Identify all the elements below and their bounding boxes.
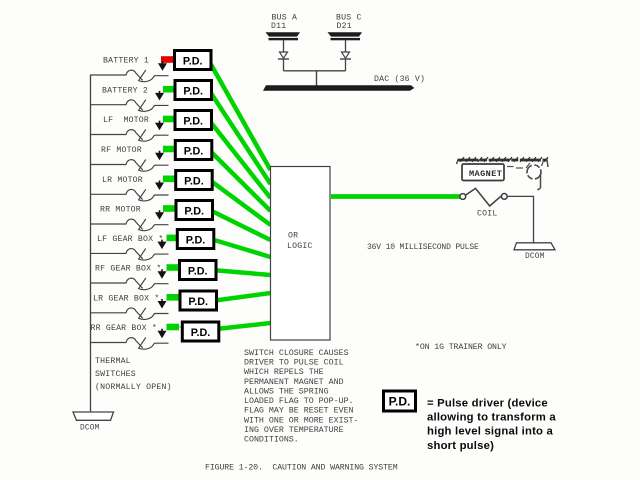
svg-text:LOADED FLAG TO POP-UP.: LOADED FLAG TO POP-UP. (244, 397, 354, 406)
svg-text:SWITCH CLOSURE CAUSES: SWITCH CLOSURE CAUSES (244, 349, 349, 358)
svg-text:BATTERY 1: BATTERY 1 (103, 57, 149, 66)
svg-text:RF GEAR BOX *: RF GEAR BOX * (95, 264, 161, 274)
svg-text:MAGNET: MAGNET (469, 169, 502, 179)
svg-text:LR MOTOR: LR MOTOR (102, 176, 143, 185)
svg-text:LR GEAR BOX *: LR GEAR BOX * (93, 293, 159, 303)
svg-text:ING OVER TEMPERATURE: ING OVER TEMPERATURE (244, 426, 344, 435)
svg-text:= Pulse driver (device: = Pulse driver (device (427, 397, 548, 409)
svg-text:D11: D11 (271, 22, 286, 31)
svg-text:D21: D21 (337, 22, 352, 31)
svg-text:ALLOWS THE SPRING: ALLOWS THE SPRING (244, 387, 329, 396)
svg-text:RF MOTOR: RF MOTOR (101, 146, 142, 155)
svg-text:allowing to transform a: allowing to transform a (427, 411, 556, 423)
svg-text:P.D.: P.D. (184, 145, 204, 157)
svg-text:P.D.: P.D. (389, 395, 411, 409)
svg-text:BUS C: BUS C (336, 14, 362, 23)
svg-text:P.D.: P.D. (183, 115, 203, 127)
svg-text:BUS A: BUS A (272, 14, 298, 23)
svg-text:THERMAL: THERMAL (95, 357, 131, 366)
svg-text:LF GEAR BOX *: LF GEAR BOX * (97, 234, 163, 244)
svg-text:FLAG MAY BE RESET EVEN: FLAG MAY BE RESET EVEN (244, 407, 354, 416)
svg-text:DAC (36 V): DAC (36 V) (374, 74, 425, 84)
svg-text:P.D.: P.D. (184, 205, 204, 217)
svg-text:WHICH REPELS THE: WHICH REPELS THE (244, 368, 324, 377)
svg-text:OR: OR (288, 231, 298, 240)
svg-text:DCOM: DCOM (525, 253, 545, 261)
svg-text:BATTERY 2: BATTERY 2 (102, 86, 148, 95)
svg-text:P.D.: P.D. (188, 296, 208, 308)
svg-text:WITH ONE OR MORE EXIST-: WITH ONE OR MORE EXIST- (244, 416, 359, 425)
svg-text:P.D.: P.D. (186, 234, 206, 246)
svg-text:RR MOTOR: RR MOTOR (100, 206, 141, 215)
svg-text:P.D.: P.D. (183, 85, 203, 97)
svg-text:CONDITIONS.: CONDITIONS. (244, 436, 299, 445)
svg-text:DRIVER TO PULSE COIL: DRIVER TO PULSE COIL (244, 358, 344, 367)
svg-text:SWITCHES: SWITCHES (95, 370, 136, 379)
svg-text:DCOM: DCOM (80, 424, 100, 432)
svg-text:PERMANENT MAGNET AND: PERMANENT MAGNET AND (244, 378, 344, 387)
svg-text:P.D.: P.D. (188, 265, 208, 277)
svg-text:LOGIC: LOGIC (287, 242, 313, 251)
svg-text:P.D.: P.D. (183, 55, 203, 67)
svg-text:RR GEAR BOX *: RR GEAR BOX * (91, 323, 157, 333)
svg-text:(NORMALLY OPEN): (NORMALLY OPEN) (95, 382, 172, 392)
svg-text:short pulse): short pulse) (427, 440, 494, 452)
svg-text:P.D.: P.D. (191, 327, 211, 339)
svg-text:high level signal into a: high level signal into a (427, 426, 553, 438)
svg-text:LF MOTOR: LF MOTOR (103, 116, 149, 125)
svg-text:FIGURE 1-20. CAUTION AND WARN: FIGURE 1-20. CAUTION AND WARNING SYSTEM (205, 464, 398, 473)
svg-text:P.D.: P.D. (184, 175, 204, 187)
svg-text:*ON 1G TRAINER ONLY: *ON 1G TRAINER ONLY (415, 342, 507, 352)
svg-text:COIL: COIL (477, 210, 497, 219)
svg-text:36V 10 MILLISECOND PULSE: 36V 10 MILLISECOND PULSE (367, 243, 479, 252)
